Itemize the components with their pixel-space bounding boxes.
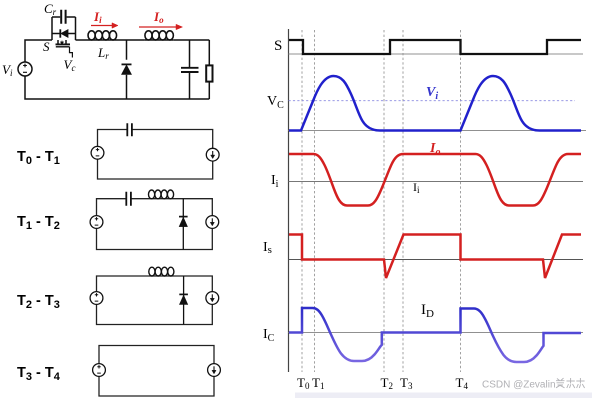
voltage source box4 [93, 364, 106, 377]
label Io arrow (red) [139, 24, 183, 29]
svg-text:T4: T4 [456, 375, 469, 391]
baseline row IC [289, 332, 584, 334]
inductor box3 [149, 267, 174, 276]
inductor box2 [149, 190, 174, 199]
baseline row Ii [289, 181, 584, 183]
dashed time line T1 [314, 30, 316, 372]
wire switch box [52, 17, 76, 40]
svg-text:Ii: Ii [93, 9, 102, 25]
svg-text:Vi: Vi [426, 85, 438, 102]
dashed time line T2 [383, 30, 385, 372]
svg-text:T1 - T2: T1 - T2 [17, 214, 60, 232]
svg-text:T2 - T3: T2 - T3 [17, 293, 60, 311]
inductor Lr [88, 31, 117, 40]
svg-text:Lr: Lr [97, 45, 109, 61]
subcircuit box2 wires [97, 199, 213, 250]
svg-text:T3 - T4: T3 - T4 [17, 365, 61, 383]
baseline row Is [289, 259, 584, 261]
inductor Lo (output) [145, 31, 173, 40]
subcircuit box3 wires [97, 276, 213, 325]
diode box2 [179, 199, 188, 250]
svg-text:Is: Is [263, 240, 272, 256]
diode box3 [179, 276, 188, 325]
svg-text:IC: IC [263, 327, 275, 344]
svg-text:T0 - T1: T0 - T1 [17, 149, 60, 167]
dashed level Vi [289, 100, 576, 102]
svg-text:T2: T2 [381, 375, 393, 391]
current source box1 [206, 148, 219, 161]
diode body (anti-parallel) [52, 29, 76, 37]
svg-text:Vi: Vi [2, 62, 13, 78]
svg-text:T0: T0 [297, 375, 310, 391]
dashed time line T0 [301, 30, 303, 372]
capacitor Cr [52, 10, 76, 24]
subcircuit box1 wires [98, 130, 213, 180]
waveform S trace [289, 40, 581, 54]
svg-text:VC: VC [267, 94, 284, 111]
watermark glyph ai [556, 378, 565, 388]
waveform Is trace [289, 235, 581, 279]
svg-text:Io: Io [153, 9, 164, 25]
watermark glyph hui 2 [576, 378, 584, 388]
watermark glyph hui 1 [567, 378, 575, 388]
label Ii arrow (red) [91, 23, 118, 28]
chart axis vertical [288, 29, 290, 372]
subcircuit box4 wires [99, 346, 214, 397]
voltage source Vi [18, 62, 32, 76]
watermark strip [295, 393, 592, 398]
svg-text:T3: T3 [400, 375, 413, 391]
svg-text:Vc: Vc [64, 57, 76, 73]
waveform IC trace [289, 308, 581, 362]
svg-text:S: S [274, 38, 282, 54]
transistor S (MOSFET switch) [56, 40, 73, 58]
svg-text:Io: Io [429, 141, 440, 158]
capacitor box1 [127, 123, 132, 136]
wire node to diode branch [126, 40, 128, 99]
wire main bottom [25, 76, 209, 99]
voltage source box2 [90, 216, 103, 229]
capacitor Co (output) [181, 40, 199, 99]
current source box4 [208, 364, 221, 377]
wire main right [208, 40, 210, 99]
current source box2 [206, 216, 219, 229]
wire main top left [25, 40, 52, 62]
svg-text:Ii: Ii [271, 173, 279, 190]
svg-text:Ii: Ii [413, 180, 420, 195]
svg-text:Cr: Cr [44, 1, 57, 17]
svg-text:ID: ID [421, 302, 434, 320]
capacitor box2 [126, 192, 131, 206]
baseline row S [289, 53, 584, 55]
svg-text:S: S [43, 39, 50, 54]
dashed time line T3 [402, 30, 404, 372]
current source box3 [206, 292, 219, 305]
svg-text:T1: T1 [312, 375, 324, 391]
voltage source box3 [90, 292, 103, 305]
resistor RL (load) [206, 65, 212, 81]
svg-text:CSDN @Zevalin: CSDN @Zevalin [482, 380, 556, 391]
wire main top mid [76, 39, 210, 41]
dashed time line T4 [460, 30, 462, 372]
baseline row VC [289, 130, 587, 132]
waveform VC trace [289, 76, 581, 131]
diode D1 freewheeling [122, 64, 132, 74]
waveform Ii trace [289, 154, 581, 206]
voltage source box1 [91, 146, 104, 159]
